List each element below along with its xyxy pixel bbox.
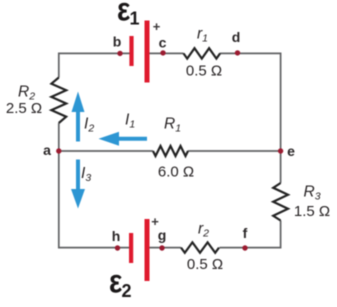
svg-text:0.5 Ω: 0.5 Ω	[186, 63, 222, 80]
svg-text:f: f	[243, 225, 248, 241]
svg-text:h: h	[112, 228, 121, 244]
svg-text:R1: R1	[164, 116, 181, 135]
svg-text:I1: I1	[125, 112, 135, 131]
svg-text:b: b	[113, 34, 122, 50]
svg-text:2.5 Ω: 2.5 Ω	[6, 100, 42, 117]
svg-text:r1: r1	[197, 26, 208, 45]
svg-text:I3: I3	[81, 165, 91, 184]
svg-text:I2: I2	[84, 116, 94, 135]
svg-text:c: c	[159, 35, 167, 51]
svg-text:6.0 Ω: 6.0 Ω	[158, 164, 194, 181]
svg-text:2: 2	[122, 281, 132, 301]
svg-text:0.5 Ω: 0.5 Ω	[187, 256, 223, 273]
svg-text:R2: R2	[18, 84, 35, 103]
svg-text:R3: R3	[304, 184, 321, 203]
svg-text:+: +	[153, 19, 161, 34]
svg-text:r2: r2	[198, 221, 209, 240]
svg-text:1.5 Ω: 1.5 Ω	[294, 203, 330, 220]
svg-text:g: g	[158, 227, 167, 243]
svg-text:d: d	[232, 29, 241, 45]
svg-text:a: a	[43, 142, 51, 158]
svg-text:1: 1	[130, 9, 140, 29]
svg-text:+: +	[151, 214, 159, 229]
svg-text:e: e	[287, 143, 295, 159]
